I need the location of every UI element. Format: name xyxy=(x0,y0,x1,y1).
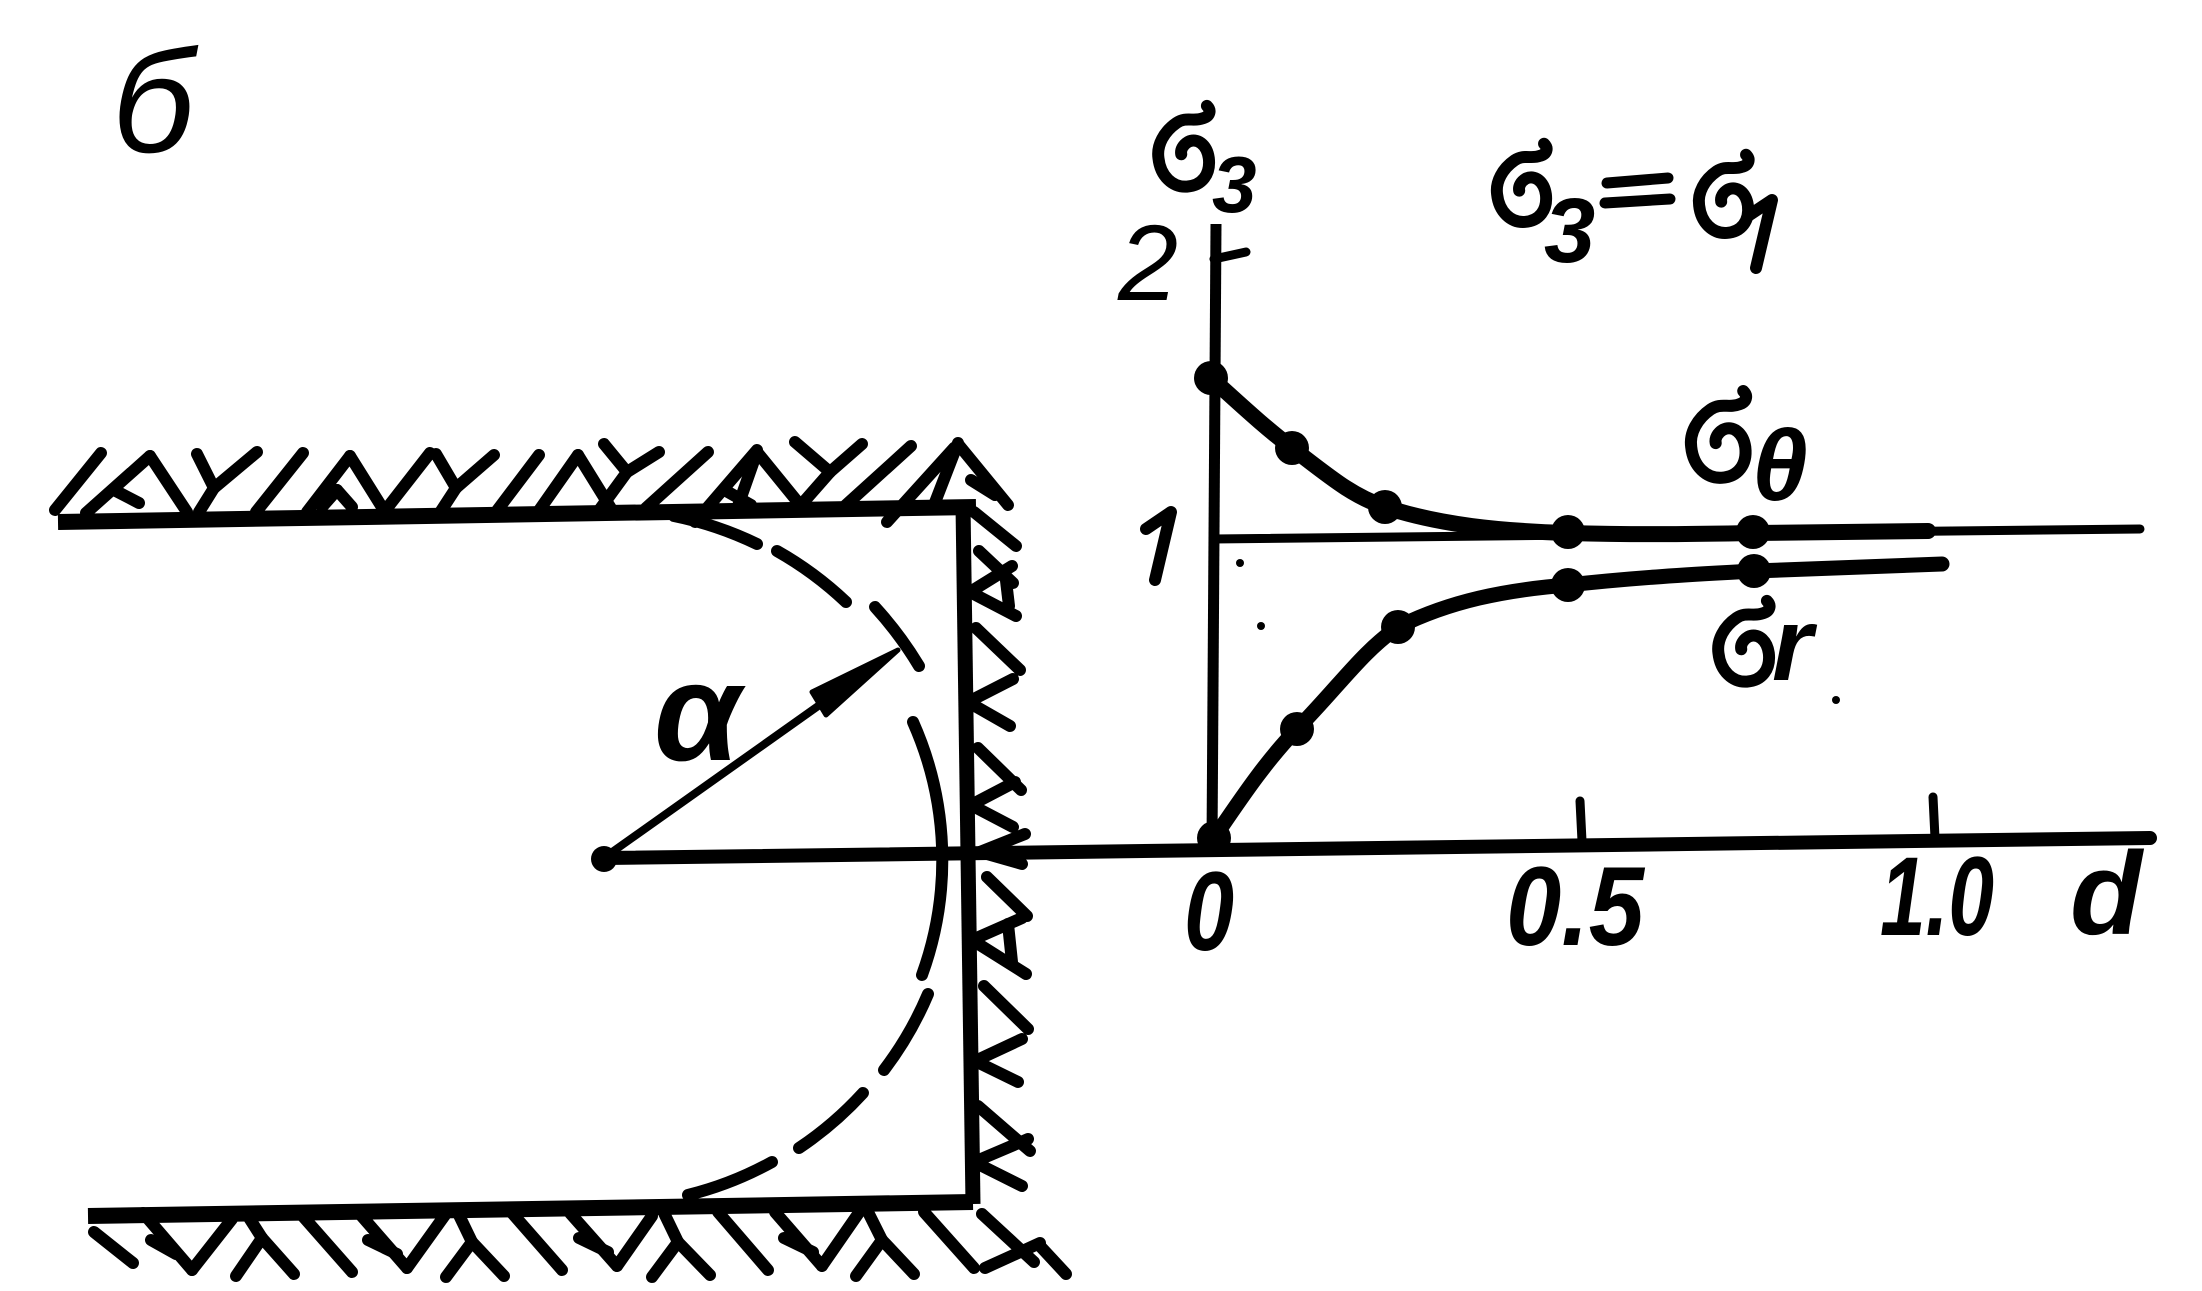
svg-text:1.0: 1.0 xyxy=(1880,834,1994,959)
svg-text:3: 3 xyxy=(1212,140,1257,229)
ink speck xyxy=(1236,559,1244,567)
y-axis label sigma_3 xyxy=(1158,106,1209,187)
svg-text:d: d xyxy=(2070,828,2145,960)
dashed semicircular arc xyxy=(674,516,942,1195)
sigma_theta curve xyxy=(1211,378,1928,534)
x-axis tick 1.0 xyxy=(1933,797,1935,838)
svg-text:θ: θ xyxy=(1752,410,1808,522)
hatching above top wall xyxy=(55,442,1008,522)
hatching right of end wall xyxy=(968,512,1040,1268)
y tick label 1 xyxy=(1146,512,1171,580)
center point dot xyxy=(591,846,617,872)
horizontal line at level 1 xyxy=(1213,529,2140,539)
bottom wall line xyxy=(88,1202,973,1216)
svg-text:0.5: 0.5 xyxy=(1506,844,1646,969)
centerline and graph x-axis xyxy=(606,838,2150,858)
top wall line xyxy=(58,507,976,522)
svg-text:3: 3 xyxy=(1544,180,1595,282)
svg-text:0: 0 xyxy=(1184,849,1234,974)
sigma_r curve xyxy=(1214,564,1942,838)
ink speck xyxy=(1257,622,1265,630)
sigma_theta data point dots xyxy=(1194,361,1770,549)
hatching below bottom wall xyxy=(94,1212,1066,1277)
svg-text:2: 2 xyxy=(1117,202,1178,323)
sigma_r data point dots xyxy=(1197,554,1771,855)
y-axis tick 2 xyxy=(1214,252,1246,259)
vertical end wall line xyxy=(963,505,973,1204)
x-axis tick 0.5 xyxy=(1580,801,1582,841)
radius arrow head xyxy=(812,650,898,715)
svg-text:б: б xyxy=(112,20,199,183)
title sigma_3 = sigma_1 xyxy=(1497,144,1547,222)
ink speck xyxy=(1832,696,1840,704)
small arrowhead on centerline at wall xyxy=(980,834,1025,852)
label sigma_r xyxy=(1718,601,1769,682)
svg-text:α: α xyxy=(654,633,746,790)
label sigma_theta xyxy=(1691,391,1746,478)
graph y-axis xyxy=(1212,224,1216,845)
svg-text:r: r xyxy=(1772,587,1818,703)
radius arrow shaft xyxy=(608,682,852,855)
